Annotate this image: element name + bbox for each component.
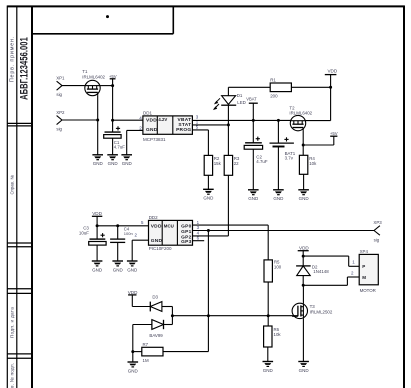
wire R3 to DD2 GP2 <box>227 175 229 236</box>
pin 2 label (DD2 GND) <box>134 232 137 237</box>
svg-text:PROG: PROG <box>176 127 191 133</box>
wire D3 common <box>171 307 173 325</box>
capacitor C2 <box>244 120 268 164</box>
resistor R2 <box>204 155 221 175</box>
svg-text:GND: GND <box>299 368 310 373</box>
ground (C3) <box>92 245 103 272</box>
wire STAT to R3 <box>227 125 229 155</box>
pin 4 label (DD2 GP2) <box>197 231 200 236</box>
wire PROG to R2 <box>192 130 208 156</box>
svg-text:10k: 10k <box>309 161 317 166</box>
wire sense horizontal <box>172 315 268 317</box>
svg-text:4.2V: 4.2V <box>158 117 167 122</box>
node GP1/sense branch <box>207 229 210 232</box>
svg-text:DD1: DD1 <box>143 111 152 116</box>
svg-text:IRLML2502: IRLML2502 <box>310 310 333 315</box>
svg-text:22: 22 <box>234 161 239 166</box>
svg-text:АБВГ.123456.001: АБВГ.123456.001 <box>18 37 30 100</box>
ground (BAT1) <box>273 190 284 201</box>
svg-text:GND: GND <box>122 161 133 166</box>
resistor R3 <box>224 155 240 175</box>
op-amp U/chip DD1 MCP73831 <box>143 111 193 143</box>
power +5V (input rail) <box>109 74 117 86</box>
mark in title band <box>106 15 109 18</box>
frame left border (inner thick) <box>31 6 33 388</box>
wire GP2 from R3 <box>193 235 229 237</box>
pin 6 label (DD2 GP3) <box>197 236 200 241</box>
node T2 gate/+5V/R4 <box>302 144 305 147</box>
svg-text:T2: T2 <box>289 105 295 110</box>
node +5V rail / DD1 VDD / C1 <box>111 119 114 122</box>
ground (C1) <box>107 138 118 166</box>
left strip label: Перв. примен. <box>10 36 16 82</box>
svg-text:VDD: VDD <box>299 246 309 251</box>
ground (R4) <box>298 190 309 201</box>
wire DD2 GND pin <box>132 240 148 261</box>
ground (D3/R7) <box>128 352 139 374</box>
svg-text:VDD: VDD <box>327 69 337 74</box>
svg-text:R7: R7 <box>143 342 149 347</box>
node R7/GND <box>131 350 134 353</box>
node R1/VDD <box>329 86 332 89</box>
svg-text:GP3: GP3 <box>181 239 192 245</box>
left strip label: Подп. и дата <box>10 307 15 338</box>
node VDD/C3 <box>96 224 99 227</box>
LED D1 <box>213 87 246 125</box>
svg-text:XP4: XP4 <box>360 249 369 254</box>
wire BAT1 to ground <box>277 147 279 190</box>
power VDD (top right) <box>325 69 338 88</box>
wire node to T3 gate <box>268 315 298 317</box>
node sense/D3 line <box>207 314 210 317</box>
wire C2 to ground <box>252 149 254 190</box>
wire GP3 stub (n.c.) <box>193 240 205 242</box>
svg-text:Подп. и дата: Подп. и дата <box>10 307 15 338</box>
transistor T3 <box>292 303 333 318</box>
wire R2 to ground <box>207 175 209 189</box>
svg-text:GND: GND <box>273 196 284 201</box>
svg-text:1M: 1M <box>143 358 149 363</box>
svg-text:+5V: +5V <box>109 74 117 79</box>
wire R4 to ground <box>303 174 305 190</box>
pin 1 label (DD1 STAT) <box>196 120 199 125</box>
svg-text:GND: GND <box>92 267 103 272</box>
top title band <box>32 6 173 33</box>
node D2 cathode net <box>302 255 305 258</box>
wire motor node to T3 drain <box>302 285 304 303</box>
svg-text:3.7v: 3.7v <box>285 156 294 161</box>
wire R1 to VDD <box>291 86 330 88</box>
diode D3a (clamp to VDD) <box>132 294 172 311</box>
ground (R2) <box>203 189 214 200</box>
power VDD (DD2) <box>92 211 103 226</box>
wire T1 to +5V node <box>100 85 112 87</box>
power VDD (D2) <box>298 246 310 256</box>
wire gate node to +5V <box>303 144 334 146</box>
pin 5 label (DD1 PROG) <box>196 125 199 130</box>
svg-text:T1: T1 <box>82 69 88 74</box>
svg-text:Перв. примен.: Перв. примен. <box>10 36 16 82</box>
resistor R7 <box>133 342 163 363</box>
power VBAT <box>246 97 257 121</box>
node VBAT symbol/C2 <box>252 119 255 122</box>
svg-text:LED: LED <box>237 100 246 105</box>
wire VDD down to T2 <box>306 87 331 120</box>
svg-text:GND: GND <box>128 368 139 373</box>
ground (T3) <box>298 362 309 373</box>
svg-text:D3: D3 <box>152 294 158 299</box>
left strip divider lines <box>7 123 32 358</box>
pin 1 label (XP4) <box>352 260 355 265</box>
node STAT/LED/R3 <box>227 123 230 126</box>
ground (T1 gate / XP2) <box>92 120 103 166</box>
diode D2 1N4148 <box>296 256 329 285</box>
resistor R6 <box>264 326 282 347</box>
ground (DD2 GND) <box>127 261 138 272</box>
pin 3 label (DD2 GP1) <box>197 225 200 230</box>
node D3 common <box>171 314 174 317</box>
wire motor node to XP4 pin 2 <box>303 277 359 285</box>
node D2 anode/motor/T3 <box>302 284 305 287</box>
frame top border <box>7 5 404 7</box>
svg-text:R1: R1 <box>270 78 276 83</box>
node XP2/T1 gate/GND <box>96 119 99 122</box>
connector XP4 (MOTOR) <box>359 249 378 293</box>
svg-text:10k: 10k <box>274 332 282 337</box>
svg-text:D1: D1 <box>237 93 243 98</box>
resistor R5 <box>264 260 282 282</box>
capacitor C1 <box>104 120 126 150</box>
wire VBAT net <box>192 119 290 121</box>
svg-text:200: 200 <box>270 93 278 98</box>
wire XP1 to T1 <box>62 85 85 87</box>
svg-text:4.7uF: 4.7uF <box>114 145 126 150</box>
svg-text:GND: GND <box>203 196 214 201</box>
wire to DD1 pin 4 <box>113 119 143 121</box>
frame right border <box>403 6 405 388</box>
ground (R6) <box>263 362 274 373</box>
capacitor C3 <box>79 226 106 246</box>
svg-text:P: P <box>362 264 365 269</box>
wire GP1 to XP3 <box>193 230 375 232</box>
battery BAT1 <box>270 120 296 160</box>
svg-text:XP1: XP1 <box>56 76 65 81</box>
wire GP0 to R5 <box>193 225 269 260</box>
pin 2 label (DD1 GND) <box>139 125 142 130</box>
svg-text:VDD: VDD <box>146 117 157 123</box>
ground (C4) <box>112 242 123 272</box>
wire R7 to sense branch <box>163 351 208 353</box>
power +5V (gate) <box>330 131 338 145</box>
transistor T1 <box>82 69 105 96</box>
pin 3 label (DD1 VBAT) <box>196 115 199 120</box>
svg-text:IRLML6402: IRLML6402 <box>289 111 312 116</box>
svg-text:15k: 15k <box>214 161 222 166</box>
svg-text:GND: GND <box>127 267 138 272</box>
left strip label: Инв. № подл. <box>10 363 15 388</box>
svg-text:GND: GND <box>248 196 259 201</box>
node sense/R5/R6/T3 gate <box>267 314 270 317</box>
svg-text:100n: 100n <box>124 231 133 236</box>
svg-text:XP2: XP2 <box>56 110 65 115</box>
wire DD1 GND pin <box>127 130 143 154</box>
svg-text:MCP73831: MCP73831 <box>143 137 166 142</box>
document number АБВГ.123456.001 <box>18 37 30 100</box>
svg-text:GND: GND <box>113 267 124 272</box>
wire LED anode to R1 <box>228 86 270 88</box>
svg-text:VDD: VDD <box>92 211 102 216</box>
wire D3b to R7/GND <box>132 325 134 352</box>
pin 2 label (XP4) <box>351 270 354 275</box>
left strip label: Справ. № <box>10 175 15 195</box>
wire T3 source to ground <box>302 319 304 362</box>
wire gate node to R4 <box>302 145 304 155</box>
pin 5 label (DD2 VDD) <box>141 220 144 225</box>
wire T1 gate down <box>97 96 99 120</box>
wire R5 to node <box>267 282 269 326</box>
resistor R1 <box>270 78 291 99</box>
svg-text:MOTOR: MOTOR <box>360 288 376 293</box>
svg-text:100: 100 <box>274 265 282 270</box>
svg-text:GND: GND <box>151 238 163 244</box>
wire +5V rail down <box>112 86 114 121</box>
svg-text:M: M <box>362 275 366 280</box>
transistor T2 <box>289 105 312 130</box>
wire R6 to ground <box>267 347 269 362</box>
svg-text:DD2: DD2 <box>149 215 158 220</box>
wire T2 gate down <box>302 131 304 145</box>
svg-text:GP1: GP1 <box>181 229 192 235</box>
node +5V/T1 <box>111 84 114 87</box>
svg-text:GND: GND <box>108 161 119 166</box>
sheet border (outer thin line) <box>7 6 16 388</box>
svg-text:VDD: VDD <box>128 290 138 295</box>
svg-text:10uF: 10uF <box>79 230 89 235</box>
connector XP3 <box>373 220 382 242</box>
svg-text:GND: GND <box>263 368 274 373</box>
svg-text:sig: sig <box>56 92 62 97</box>
pin 4 label (DD1 VDD) <box>139 115 142 120</box>
svg-text:IRLML6402: IRLML6402 <box>82 75 105 80</box>
svg-text:Справ. №: Справ. № <box>10 175 15 195</box>
ground (DD1 GND) <box>121 155 132 166</box>
svg-text:1N4148: 1N4148 <box>313 269 329 274</box>
wire STAT net <box>192 124 228 126</box>
wire XP2 to T1 gate <box>62 119 98 121</box>
svg-text:MCU: MCU <box>164 223 174 228</box>
diode D3b (clamp from GND) <box>133 320 173 339</box>
svg-text:+5V: +5V <box>330 131 338 136</box>
resistor R4 <box>299 155 317 174</box>
wire VDD rail to DD2 pin 5 <box>97 225 148 227</box>
connector XP2 <box>56 110 65 132</box>
ground (C2) <box>248 190 259 201</box>
wire VDD node to XP4 pin 1 <box>303 256 359 266</box>
svg-text:GP0: GP0 <box>181 224 192 230</box>
svg-text:GND: GND <box>146 127 158 133</box>
chip DD2 PIC10F200 <box>149 215 193 251</box>
svg-text:GND: GND <box>299 196 310 201</box>
svg-text:GND: GND <box>93 161 104 166</box>
svg-text:VDD: VDD <box>151 224 162 230</box>
capacitor C4 <box>110 226 133 243</box>
svg-text:4.7uF: 4.7uF <box>256 159 268 164</box>
node BAT1 <box>277 119 280 122</box>
svg-text:XP3: XP3 <box>373 220 382 225</box>
node VDD/C4 <box>116 224 119 227</box>
svg-text:PIC10F200: PIC10F200 <box>149 246 172 251</box>
svg-text:sig: sig <box>374 237 380 242</box>
svg-text:T3: T3 <box>310 304 316 309</box>
wire sense branch down <box>207 231 209 352</box>
svg-text:VBAT: VBAT <box>246 97 257 102</box>
connector XP1 <box>56 76 65 98</box>
power VDD (clamp D3) <box>128 290 138 307</box>
svg-text:sig: sig <box>56 127 62 132</box>
svg-text:BAV99: BAV99 <box>149 333 163 338</box>
svg-text:Инв. № подл.: Инв. № подл. <box>10 363 15 388</box>
pin 1 label (DD2 GP0) <box>197 220 200 225</box>
